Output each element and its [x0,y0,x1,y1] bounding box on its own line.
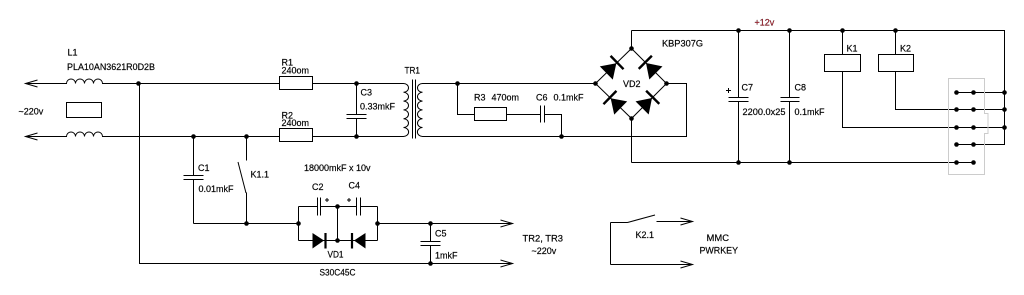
svg-text:~220v: ~220v [532,246,557,256]
svg-text:C8: C8 [795,83,807,93]
svg-text:18000mkF x 10v: 18000mkF x 10v [304,163,371,173]
svg-text:C3: C3 [361,88,373,98]
svg-text:C2: C2 [312,182,324,192]
svg-text:K2.1: K2.1 [636,230,655,240]
svg-text:TR2, TR3: TR2, TR3 [523,234,564,244]
svg-text:C1: C1 [198,163,210,173]
svg-text:240om: 240om [282,66,310,76]
svg-text:MMC: MMC [707,233,730,243]
svg-text:C7: C7 [742,83,754,93]
svg-text:240om: 240om [282,118,310,128]
svg-text:PLA10AN3621R0D2B: PLA10AN3621R0D2B [67,62,155,72]
svg-text:K1: K1 [847,44,858,54]
svg-text:+12v: +12v [755,18,775,28]
svg-text:TR1: TR1 [405,66,421,76]
svg-text:K1.1: K1.1 [251,170,270,180]
svg-text:0.33mkF: 0.33mkF [360,102,396,112]
svg-text:K2: K2 [900,44,911,54]
svg-text:2200.0x25: 2200.0x25 [743,107,786,117]
svg-text:470om: 470om [492,93,520,103]
svg-text:VD1: VD1 [328,250,344,260]
svg-text:R3: R3 [474,93,486,103]
svg-text:C6: C6 [536,93,548,103]
svg-text:C5: C5 [435,229,447,239]
svg-text:1mkF: 1mkF [435,251,458,261]
svg-text:S30C45C: S30C45C [320,268,356,278]
svg-text:VD2: VD2 [623,79,641,89]
svg-text:0.1mkF: 0.1mkF [795,107,826,117]
svg-text:0.01mkF: 0.01mkF [199,184,235,194]
svg-text:C4: C4 [349,181,361,191]
svg-text:0.1mkF: 0.1mkF [554,93,585,103]
svg-text:KBP307G: KBP307G [662,39,703,49]
svg-text:L1: L1 [68,48,78,58]
svg-text:PWRKEY: PWRKEY [700,246,739,256]
svg-text:~220v: ~220v [19,107,44,117]
